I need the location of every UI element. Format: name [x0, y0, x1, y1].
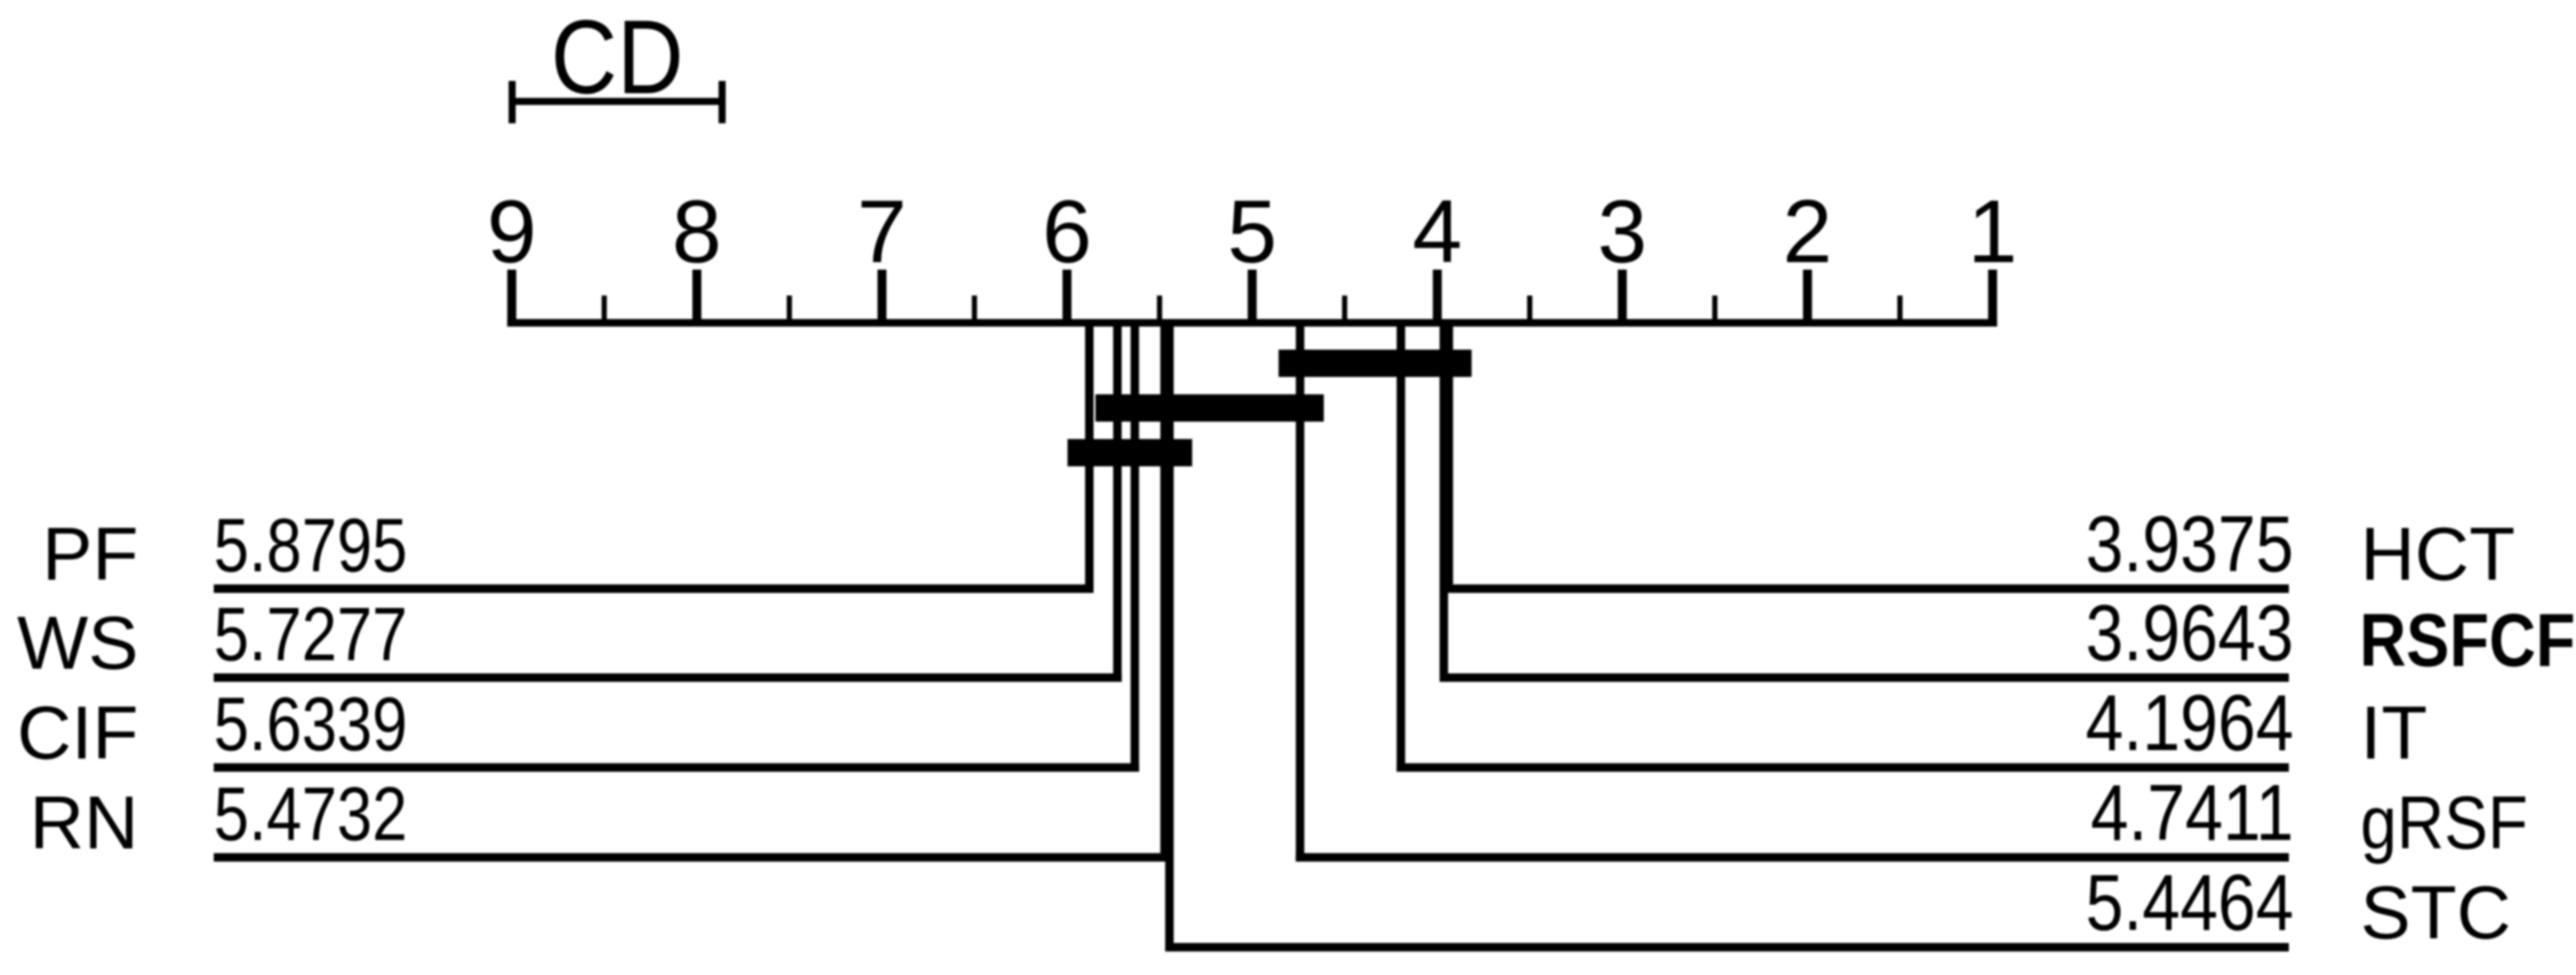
svg-text:HCT: HCT	[2360, 512, 2515, 596]
svg-text:5.4464: 5.4464	[2085, 858, 2294, 947]
svg-text:5.7277: 5.7277	[214, 592, 408, 677]
svg-text:IT: IT	[2360, 691, 2427, 775]
svg-text:CIF: CIF	[17, 691, 138, 775]
svg-text:PF: PF	[42, 512, 138, 596]
svg-text:2: 2	[1782, 183, 1832, 282]
svg-text:RN: RN	[29, 781, 138, 865]
svg-text:5.4732: 5.4732	[214, 772, 408, 856]
svg-text:3.9375: 3.9375	[2085, 500, 2294, 588]
svg-text:STC: STC	[2360, 871, 2511, 954]
svg-text:9: 9	[487, 183, 537, 282]
svg-text:WS: WS	[17, 601, 138, 685]
svg-text:RSFCF: RSFCF	[2359, 598, 2575, 682]
svg-text:4.7411: 4.7411	[2090, 768, 2294, 856]
svg-text:5.8795: 5.8795	[214, 503, 408, 587]
svg-text:6: 6	[1042, 183, 1092, 282]
svg-text:3.9643: 3.9643	[2085, 588, 2294, 677]
svg-text:3: 3	[1598, 183, 1648, 282]
svg-text:8: 8	[672, 183, 722, 282]
svg-text:7: 7	[857, 183, 907, 282]
svg-text:4.1964: 4.1964	[2085, 679, 2294, 767]
svg-text:gRSF: gRSF	[2360, 780, 2528, 865]
svg-text:1: 1	[1968, 183, 2018, 282]
svg-text:5.6339: 5.6339	[214, 681, 408, 766]
svg-text:5: 5	[1227, 183, 1277, 282]
svg-text:CD: CD	[551, 0, 684, 116]
svg-text:4: 4	[1412, 183, 1462, 282]
